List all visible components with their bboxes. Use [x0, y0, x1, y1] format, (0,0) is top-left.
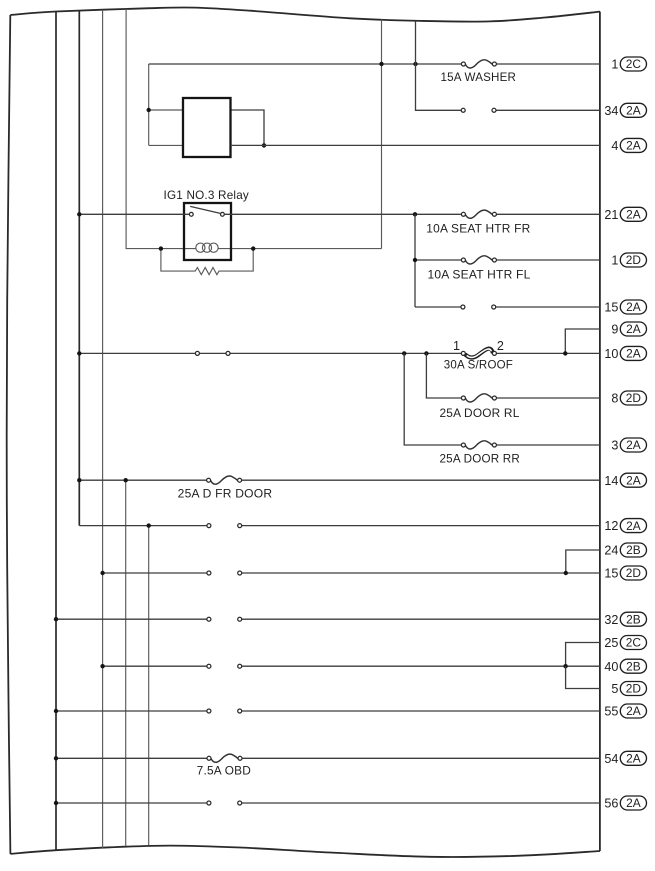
svg-text:10: 10	[604, 347, 618, 361]
svg-text:2: 2	[497, 339, 504, 353]
svg-text:2A: 2A	[626, 438, 641, 452]
wire drop x=415 from row 21 to row 15 2A	[414, 214, 416, 307]
pin 1 label (2C)	[611, 57, 646, 72]
pin 15 label (2A)	[604, 300, 646, 315]
pin 5 label (2D)	[611, 682, 646, 697]
svg-text:3: 3	[611, 439, 618, 453]
pin 12 label (2A)	[604, 519, 646, 534]
node row 40 / stub	[563, 664, 567, 668]
node T-junction on box left feed	[147, 108, 151, 112]
wire coil return rises to row 1 (x=381.5)	[381, 20, 383, 249]
relay box outline	[184, 203, 231, 260]
node bus C / row 15 2D	[100, 571, 104, 575]
node row10 / row9 stub	[563, 351, 567, 355]
relay switch contacts	[189, 212, 193, 216]
svg-text:2A: 2A	[626, 473, 641, 487]
svg-text:15: 15	[604, 301, 618, 315]
wire row 25 2C stub	[566, 643, 600, 667]
pin 4 label (2A)	[611, 138, 646, 153]
pin 24 label (2B)	[604, 543, 646, 558]
wire row 9 2A stub	[565, 329, 600, 353]
svg-text:2B: 2B	[626, 659, 641, 673]
wire box right top pin to row 4	[231, 110, 265, 145]
wire row 4 2A	[231, 144, 600, 146]
wire panel top edge	[10, 7, 600, 21]
node bus B / row 14	[77, 478, 81, 482]
svg-text:24: 24	[604, 544, 618, 558]
pin 55 label (2A)	[604, 704, 646, 719]
wire frame feeding top box (row 1 feed + left pins)	[148, 64, 150, 145]
wire row 5 2D stub	[566, 666, 600, 688]
pin 1 label (2D)	[611, 253, 646, 268]
svg-text:10A SEAT HTR FR: 10A SEAT HTR FR	[426, 222, 530, 235]
node bus B / row 10	[77, 351, 81, 355]
wire relay coil row (y=248.6)	[161, 248, 382, 250]
node bus A / row 32	[54, 617, 58, 621]
pin 10 label (2A)	[604, 346, 646, 361]
wire row 55 2A	[56, 710, 600, 712]
wire row 1 2D	[415, 259, 600, 261]
wire row 12 2A (bus B elbow)	[79, 525, 600, 527]
connector pass-through circles row 10	[195, 351, 199, 355]
svg-text:30A S/ROOF: 30A S/ROOF	[444, 359, 513, 372]
node row10 / DOOR RL drop	[424, 351, 428, 355]
svg-text:2C: 2C	[626, 57, 642, 71]
svg-text:14: 14	[604, 474, 618, 488]
wire row 15 2D	[103, 572, 600, 574]
wire bus B x=79.3	[78, 11, 80, 526]
fuse 25A DOOR RR	[461, 441, 496, 449]
svg-text:2A: 2A	[626, 139, 641, 153]
node row10 / DOOR RR drop	[402, 351, 406, 355]
connector gap row 12	[207, 524, 242, 528]
svg-text:25: 25	[604, 636, 618, 650]
svg-text:2B: 2B	[626, 543, 641, 557]
wire bus D x=126.1 (to relay coil)	[126, 9, 161, 248]
resistor across relay coil	[161, 249, 253, 275]
svg-text:40: 40	[604, 660, 618, 674]
svg-text:55: 55	[604, 705, 618, 719]
pin 34 label (2A)	[604, 103, 646, 118]
pin 3 label (2A)	[611, 438, 646, 453]
wire row 10 2A (30A S/ROOF)	[79, 352, 600, 354]
svg-text:21: 21	[604, 208, 618, 222]
wire row 34 2A with feed from top edge	[416, 21, 600, 110]
svg-text:2A: 2A	[626, 796, 641, 810]
fuse 10A SEAT HTR FR	[461, 210, 496, 218]
node row 12 / bottom drop	[147, 523, 151, 527]
fuse 25A DOOR RL	[461, 394, 496, 402]
wire row 1 2C (15A WASHER feed)	[149, 63, 600, 65]
svg-text:1: 1	[611, 58, 618, 72]
node bus C / row 40	[100, 664, 104, 668]
svg-text:7.5A OBD: 7.5A OBD	[197, 764, 251, 777]
pin 40 label (2B)	[604, 659, 646, 674]
wire row 8 2D with drop from row 10	[426, 353, 600, 398]
svg-text:2A: 2A	[626, 104, 641, 118]
node bus A / row 55	[54, 709, 58, 713]
node row 14 / bottom drop	[124, 478, 128, 482]
wire row 40 2B	[103, 665, 600, 667]
fuse 10A SEAT HTR FL	[461, 256, 496, 264]
connector gap row 34	[461, 108, 496, 112]
fuse 7.5A OBD	[207, 754, 242, 762]
svg-text:10A SEAT HTR FL: 10A SEAT HTR FL	[428, 269, 531, 282]
svg-text:25A DOOR RL: 25A DOOR RL	[440, 407, 520, 420]
coil of relay (3 loops)	[196, 243, 205, 252]
node row 15 2D / row 24 stub	[564, 571, 568, 575]
node bus B / row 21	[77, 212, 81, 216]
svg-text:2C: 2C	[626, 636, 642, 650]
svg-text:15A WASHER: 15A WASHER	[441, 71, 517, 84]
wire panel right edge	[599, 12, 601, 851]
pin 25 label (2C)	[604, 636, 646, 651]
wire row 21 2A (through relay switch)	[79, 213, 600, 215]
pin 32 label (2B)	[604, 612, 646, 627]
svg-text:2A: 2A	[626, 347, 641, 361]
wire row 32 2B	[56, 618, 600, 620]
pin 14 label (2A)	[604, 473, 646, 488]
wire panel bottom edge	[10, 846, 600, 857]
node row 21 / FL drop	[413, 212, 417, 216]
pin 54 label (2A)	[604, 751, 646, 766]
wire row 56 2A	[56, 802, 600, 804]
wire row 54 2A (7.5A OBD)	[56, 757, 600, 759]
svg-text:15: 15	[604, 567, 618, 581]
svg-text:2D: 2D	[626, 253, 642, 267]
wire row 14 2A (25A D FR DOOR)	[79, 479, 600, 481]
svg-text:25A D FR DOOR: 25A D FR DOOR	[178, 488, 273, 501]
node relay coil right	[251, 246, 255, 250]
node row 1 2D	[413, 258, 417, 262]
svg-text:8: 8	[611, 392, 618, 406]
connector box U1 (unlabeled)	[183, 98, 231, 157]
wire bus A x=56	[55, 12, 57, 851]
pin 9 label (2A)	[611, 322, 646, 337]
svg-text:25A DOOR RR: 25A DOOR RR	[440, 452, 521, 465]
svg-text:2B: 2B	[626, 612, 641, 626]
connector gap row 40	[207, 664, 242, 668]
svg-text:4: 4	[611, 139, 618, 153]
wire row 3 2A with drop from row 10	[404, 353, 600, 445]
fuse 25A D FR DOOR	[207, 476, 242, 484]
connector gap row 15 2A	[461, 305, 496, 309]
svg-text:2A: 2A	[626, 300, 641, 314]
svg-text:2A: 2A	[626, 704, 641, 718]
node bus A / row 56	[54, 801, 58, 805]
pin 56 label (2A)	[604, 796, 646, 811]
svg-text:9: 9	[611, 323, 618, 337]
connector gap row 56	[207, 801, 242, 805]
fuse 15A WASHER	[461, 60, 496, 68]
svg-text:2A: 2A	[626, 519, 641, 533]
relay switch blade	[190, 206, 220, 213]
wire row 24 2B stub	[566, 550, 600, 573]
svg-text:2A: 2A	[626, 322, 641, 336]
connector gap row 55	[207, 709, 242, 713]
svg-text:1: 1	[453, 339, 460, 353]
svg-text:IG1 NO.3 Relay: IG1 NO.3 Relay	[164, 189, 250, 202]
node right of top box	[262, 143, 266, 147]
pin 21 label (2A)	[604, 207, 646, 222]
svg-text:2D: 2D	[626, 391, 642, 405]
svg-text:56: 56	[604, 797, 618, 811]
wire drop from node at row 12 to bottom edge	[148, 526, 150, 846]
svg-text:2D: 2D	[626, 682, 642, 696]
connector gap row 32	[207, 617, 242, 621]
wire row 15 2A	[415, 306, 600, 308]
svg-text:1: 1	[611, 254, 618, 268]
connector gap row 15 2D	[207, 571, 242, 575]
pin 15 label (2D)	[604, 566, 646, 581]
svg-text:54: 54	[604, 752, 618, 766]
svg-text:5: 5	[611, 682, 618, 696]
svg-text:2A: 2A	[626, 752, 641, 766]
svg-text:32: 32	[604, 613, 618, 627]
svg-text:2A: 2A	[626, 208, 641, 222]
svg-text:34: 34	[604, 104, 618, 118]
node row1/row34 feed	[413, 62, 417, 66]
fusible link 30A S/ROOF	[461, 349, 496, 358]
svg-text:12: 12	[604, 519, 618, 533]
node row1/coil return	[379, 62, 383, 66]
wire bus C x=102.6	[102, 10, 104, 849]
wire panel left edge	[7, 15, 11, 854]
node bus A / row 54	[54, 756, 58, 760]
pin 8 label (2D)	[611, 391, 646, 406]
wire drop from node at row 14 to bottom edge	[125, 480, 127, 846]
svg-text:2D: 2D	[626, 566, 642, 580]
node relay coil left	[159, 246, 163, 250]
